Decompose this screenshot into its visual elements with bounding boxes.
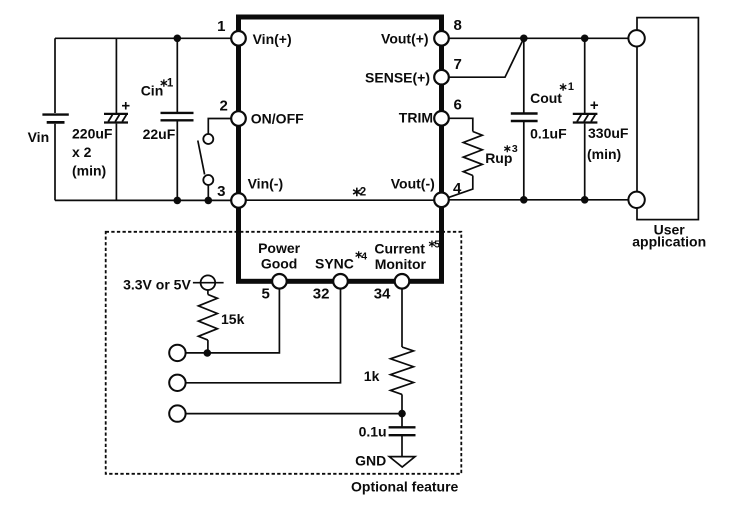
pin 2 ON/OFF <box>231 111 246 126</box>
svg-text:6: 6 <box>454 97 462 114</box>
switch ON/OFF wiring <box>198 119 231 201</box>
svg-text:+: + <box>121 98 130 115</box>
svg-text:0.1u: 0.1u <box>359 424 387 440</box>
junction dot switch bottom <box>205 197 213 205</box>
module box U1 <box>239 17 442 281</box>
svg-text:Vin(+): Vin(+) <box>253 31 292 47</box>
optional feature dashed box <box>106 232 462 474</box>
wire top-left rail from battery to pin 1 <box>55 37 231 39</box>
pin 32 SYNC <box>333 274 348 289</box>
svg-text:3.3V or 5V: 3.3V or 5V <box>123 276 191 292</box>
junction dot 330uF bottom <box>581 196 589 204</box>
svg-text:220uF: 220uF <box>72 126 113 142</box>
open terminal circle 1 <box>169 345 185 361</box>
svg-text:x 2: x 2 <box>72 144 92 160</box>
svg-text:SENSE(+): SENSE(+) <box>365 69 430 85</box>
junction dot 1k bottom <box>398 410 406 418</box>
svg-text:ON/OFF: ON/OFF <box>251 110 304 126</box>
capacitor 330uF (polarized) <box>573 38 598 200</box>
pin 1 Vin(+) <box>231 31 246 46</box>
open terminal circle 2 <box>169 375 185 391</box>
wire internal Vin(-) to Vout(-) <box>246 199 434 201</box>
svg-text:0.1uF: 0.1uF <box>530 126 567 142</box>
capacitor Cout 0.1uF <box>511 38 538 200</box>
switch arm <box>198 141 205 175</box>
svg-text:+: + <box>590 97 599 114</box>
svg-text:Vin: Vin <box>28 129 50 145</box>
svg-text:15k: 15k <box>221 311 245 327</box>
terminal circle user app bottom <box>628 192 644 208</box>
wire terminal1 to pin 5 <box>186 289 280 353</box>
wire bottom-left rail from battery to pin 3 <box>55 199 231 201</box>
capacitor 0.1u <box>389 414 416 457</box>
svg-text:Good: Good <box>261 256 298 272</box>
open terminal circle 3 <box>169 405 185 421</box>
junction dot Cout top <box>520 35 528 43</box>
svg-text:(min): (min) <box>72 163 106 179</box>
battery Vin <box>42 38 68 200</box>
resistor 1k <box>391 289 414 414</box>
svg-text:7: 7 <box>454 56 462 73</box>
capacitor Cin 22uF <box>161 38 194 200</box>
svg-text:22uF: 22uF <box>143 126 176 142</box>
svg-text:34: 34 <box>374 285 391 302</box>
svg-text:2: 2 <box>219 98 227 115</box>
pin 7 SENSE(+) <box>434 70 449 85</box>
svg-text:Vout(+): Vout(+) <box>381 30 429 46</box>
svg-text:TRIM: TRIM <box>399 109 433 125</box>
pin 4 Vout(-) <box>434 193 449 208</box>
svg-text:GND: GND <box>355 452 386 468</box>
svg-text:1k: 1k <box>364 368 380 384</box>
svg-text:330uF: 330uF <box>588 125 629 141</box>
svg-text:Power: Power <box>258 240 301 256</box>
switch contact bottom <box>203 175 213 185</box>
svg-text:2: 2 <box>360 186 366 198</box>
resistor 15k <box>198 290 217 353</box>
capacitor 220uF x2 (polarized) <box>104 38 128 200</box>
svg-text:3: 3 <box>217 183 225 200</box>
svg-text:1: 1 <box>217 18 225 35</box>
junction dot Cin bottom <box>174 197 182 205</box>
junction dot Cin top <box>174 35 182 43</box>
ground symbol GND <box>389 457 415 467</box>
svg-text:5: 5 <box>262 285 270 302</box>
pin 5 Power Good <box>272 274 287 289</box>
pin 6 TRIM <box>434 111 449 126</box>
terminal circle user app top <box>628 30 644 46</box>
3.3V or 5V supply terminal <box>193 275 224 290</box>
wire terminal3 to current monitor node <box>186 413 402 415</box>
svg-text:Optional feature: Optional feature <box>351 479 459 495</box>
wire bottom-right rail pin4 to user application <box>449 199 629 201</box>
svg-text:Vout(-): Vout(-) <box>391 176 435 192</box>
user application box <box>637 18 698 220</box>
junction dot Cout bottom <box>520 196 528 204</box>
svg-text:(min): (min) <box>587 146 621 162</box>
junction dot 15k bottom <box>204 349 212 357</box>
svg-text:32: 32 <box>313 285 330 302</box>
pin 34 Current Monitor <box>395 274 410 289</box>
svg-text:application: application <box>632 233 706 249</box>
wire terminal2 to pin 32 <box>186 289 341 383</box>
junction dot 330uF top <box>581 35 589 43</box>
pin 3 Vin(-) <box>231 193 246 208</box>
pin 8 Vout(+) <box>434 31 449 46</box>
svg-text:Monitor: Monitor <box>375 256 427 272</box>
svg-text:8: 8 <box>454 17 462 34</box>
wire top-right rail pin8 to user application <box>449 37 629 39</box>
resistor Rup <box>448 118 482 197</box>
svg-text:Vin(-): Vin(-) <box>248 176 284 192</box>
switch contact top <box>203 134 213 144</box>
wire SENSE(+) to output node <box>449 38 524 77</box>
